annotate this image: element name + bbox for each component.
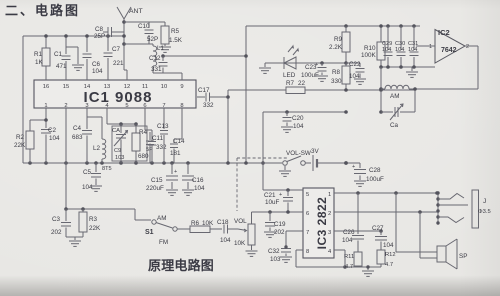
svg-text:SP: SP [459,253,467,260]
op-amp IC2 7642 [429,28,469,63]
svg-text:104: 104 [220,237,231,244]
wire pin2 drop [65,108,67,163]
capacitor C5 [82,163,112,191]
svg-text:104: 104 [383,242,394,249]
resistor R12 [377,250,396,268]
svg-text:202: 202 [51,229,62,236]
wire S1 feed [64,163,151,220]
capacitor C28 [344,161,384,183]
svg-text:C15: C15 [151,177,163,184]
svg-text:15: 15 [63,84,69,90]
svg-text:2.2K: 2.2K [329,44,343,51]
wire left rail [22,36,24,163]
svg-text:L2: L2 [93,145,101,152]
svg-text:4.7: 4.7 [345,264,353,270]
capacitor C23 [301,62,327,79]
svg-text:221: 221 [113,60,124,67]
svg-text:16: 16 [43,84,49,90]
svg-text:5: 5 [125,103,128,109]
wire top bus [23,35,124,37]
wire main rail VCC [23,161,282,165]
ground [354,181,366,186]
wire speaker left drop [396,193,437,252]
capacitor C20 [283,112,305,130]
capacitor C8 [94,26,124,40]
svg-text:原理电路图: 原理电路图 [148,258,214,273]
svg-text:R3: R3 [89,216,98,223]
svg-text:R12: R12 [385,252,396,258]
switch VOL-SW [283,150,311,165]
svg-text:R10: R10 [364,45,376,52]
svg-text:683: 683 [72,134,83,141]
svg-text:104: 104 [194,185,205,192]
capacitor C30 [395,26,406,67]
ground [281,127,293,132]
IC3 U3 2822 [303,188,334,258]
svg-text:7: 7 [306,230,309,236]
resistor R4 [132,124,149,163]
svg-text:C13: C13 [157,123,169,130]
antenna ANT [117,7,143,36]
resistor R9 [329,26,350,63]
svg-text:C7: C7 [112,46,121,53]
svg-text:2: 2 [466,44,469,50]
svg-text:11: 11 [142,84,148,90]
wire output ground bus [296,265,381,269]
capacitor C4 [72,108,92,163]
wire antenna stem [122,20,126,70]
svg-text:C12: C12 [149,55,161,62]
wire C10 branch [124,21,165,23]
dashed gang link [237,158,288,211]
ground [259,63,271,73]
battery BT 3V [305,148,346,171]
resistor R11 [344,252,362,270]
svg-text:1: 1 [429,44,432,50]
svg-text:+: + [279,192,282,198]
wire AM tank right rail [413,87,417,112]
svg-text:7642: 7642 [441,47,457,54]
speaker SP [437,239,467,269]
svg-text:10: 10 [161,84,167,90]
IC1 U1 9088 [34,80,196,109]
svg-text:8: 8 [306,249,309,255]
wire C20 row [263,110,348,114]
svg-text:ANT: ANT [129,8,143,15]
svg-text:C27: C27 [372,225,384,232]
capacitor C3 [51,209,71,237]
ground [279,166,291,176]
wire C12 feed [161,54,246,58]
svg-text:14: 14 [84,84,91,90]
svg-text:104: 104 [382,47,391,53]
svg-text:J: J [483,198,486,205]
svg-text:332: 332 [203,102,214,109]
ground [354,79,366,84]
svg-text:471: 471 [56,63,67,70]
resistor R8 [331,63,350,90]
ground [246,251,258,256]
svg-text:C18: C18 [217,219,229,226]
capacitor C12 [149,55,168,73]
resistor R5 [161,22,183,46]
capacitor C16 [182,163,205,192]
svg-text:Ca: Ca [390,122,399,129]
svg-text:104: 104 [49,135,60,142]
svg-text:+: + [352,164,355,170]
svg-text:181: 181 [170,150,181,157]
resistor R3 [79,209,101,237]
wire pin7 [286,230,303,232]
LED D1 [283,46,299,79]
wire pin2 row [334,210,437,214]
svg-text:R7: R7 [286,80,295,87]
capacitor C15 [146,163,178,192]
ground [159,47,171,52]
ground [66,237,83,246]
svg-text:CA: CA [112,128,120,134]
capacitor C18 [217,219,238,244]
wire mid rail [244,26,248,163]
svg-text:1K: 1K [35,59,44,66]
switch S1 [145,215,177,246]
svg-text:680: 680 [138,153,149,160]
svg-text:AM: AM [390,93,399,100]
wire pin6 row [252,210,304,214]
svg-text:220uF: 220uF [146,185,164,192]
svg-text:100K: 100K [361,52,377,59]
svg-text:VOL: VOL [234,218,247,225]
svg-text:R1: R1 [34,51,43,58]
svg-text:12: 12 [124,84,130,90]
oscillator box [112,126,147,161]
capacitor C7 [104,34,125,80]
svg-text:C14: C14 [173,138,185,145]
svg-text:C16: C16 [192,177,204,184]
capacitor C19 [265,212,286,236]
svg-text:C8: C8 [95,26,104,33]
svg-text:9: 9 [180,84,183,90]
wire pin3 row [334,229,383,233]
wire to pin12 [124,70,127,80]
capacitor C13 [157,108,169,163]
capacitor C1 [54,34,71,80]
potentiometer VOL 10K [234,212,255,250]
capacitor C14 [170,108,185,163]
svg-text:R9: R9 [334,36,343,43]
wire speaker right drop [420,212,437,258]
svg-text:R5: R5 [171,28,180,35]
svg-text:R2: R2 [16,134,25,141]
svg-text:C11: C11 [152,135,164,142]
svg-text:L1: L1 [157,45,165,52]
wire pin8 drop [296,250,303,267]
svg-text:3: 3 [328,230,331,236]
svg-text:S1: S1 [145,229,154,236]
svg-text:2: 2 [328,211,331,217]
svg-text:8T5: 8T5 [102,166,112,172]
svg-text:C26: C26 [343,229,355,236]
svg-text:二、电路图: 二、电路图 [5,3,80,18]
svg-text:1: 1 [328,192,331,198]
svg-text:10K: 10K [202,220,214,227]
capacitor C21 [264,190,293,212]
svg-text:3V: 3V [311,148,320,155]
capacitor C11 [145,108,167,163]
svg-text:22K: 22K [89,225,101,232]
variable capacitor Ca [381,104,415,129]
svg-text:IC1 9088: IC1 9088 [84,89,153,106]
svg-text:R8: R8 [332,69,341,76]
svg-text:FM: FM [159,239,168,246]
wire right drop rail [226,90,230,163]
wire AGC row [228,88,415,92]
svg-text:104: 104 [395,47,404,53]
wire pin1 row [334,191,439,195]
ground [166,190,178,195]
svg-text:C1: C1 [54,51,63,58]
capacitor C10 [138,22,158,44]
wire LED row [265,61,348,65]
ground [362,265,374,276]
capacitor 5P [146,132,154,163]
svg-text:25P: 25P [94,33,105,40]
svg-text:1.5K: 1.5K [169,37,183,44]
svg-text:C4: C4 [73,125,82,132]
ground [90,186,102,191]
svg-text:C21: C21 [264,192,276,199]
inductor AM L3 [381,85,415,100]
capacitor C31 [408,26,419,67]
svg-text:AM: AM [157,215,166,222]
svg-text:C19: C19 [274,221,286,228]
svg-text:13: 13 [104,84,110,90]
resistor R6 [177,220,222,233]
svg-text:4.7: 4.7 [385,262,393,268]
wire IC2 output loop [415,46,478,89]
capacitor C22 [346,61,365,80]
svg-text:103: 103 [270,256,281,263]
svg-text:22: 22 [298,80,306,87]
svg-text:C28: C28 [369,167,381,174]
ground [264,232,276,237]
svg-text:R6: R6 [191,220,200,227]
resistor R7 [286,80,306,94]
svg-text:10uF: 10uF [265,199,280,206]
resistor R1 [34,34,50,80]
svg-text:Φ3.5: Φ3.5 [478,209,491,215]
wire pin4 row [107,108,138,126]
ground [66,47,84,70]
svg-text:5: 5 [306,192,309,198]
resistor R2 [14,118,48,163]
wire pin4 drop [334,250,345,267]
capacitor C17 [197,87,228,109]
svg-text:C10: C10 [138,23,150,30]
ground [406,67,418,77]
wire L1 top [124,43,153,45]
wire caps bottom bus [379,65,435,69]
svg-text:104: 104 [408,47,417,53]
wire pin5 input [263,188,303,192]
resistor R10 [361,24,385,67]
capacitor C26 [342,193,364,252]
svg-text:22K: 22K [14,142,26,149]
capacitor C6 [83,34,104,80]
wire IC2 input [416,45,435,47]
svg-text:LED: LED [283,72,296,79]
svg-text:332: 332 [156,144,167,151]
svg-text:C9: C9 [114,148,121,154]
svg-text:+: + [174,169,177,175]
svg-text:R11: R11 [344,254,354,260]
svg-text:103: 103 [115,155,124,161]
capacitor C27 [372,225,394,250]
svg-text:104: 104 [82,184,93,191]
svg-text:104: 104 [342,237,353,244]
wire AM tank left rail [379,67,383,114]
svg-text:104: 104 [92,68,103,75]
jack J 3.5mm [436,190,490,228]
svg-text:6: 6 [306,211,309,217]
ground [280,257,292,262]
ground [182,190,194,195]
svg-text:C17: C17 [198,87,210,94]
svg-text:C32: C32 [268,248,280,255]
wire volume feed rail [261,112,265,190]
inductor L1 [153,44,165,73]
inductor L2 [87,117,106,163]
wire top-right bus [246,24,420,28]
svg-text:100uF: 100uF [366,176,384,183]
capacitor C2 [41,108,60,163]
svg-text:VOL-SW: VOL-SW [286,150,311,157]
ground [316,76,328,81]
svg-text:52P: 52P [147,36,158,43]
svg-text:C22: C22 [349,61,361,68]
svg-text:IC2: IC2 [438,28,450,37]
svg-text:C3: C3 [52,216,61,223]
variable capacitor Ca2 [112,124,128,163]
svg-text:IC3 2822: IC3 2822 [315,197,329,250]
svg-text:C20: C20 [292,115,304,122]
svg-text:C2: C2 [48,127,57,134]
svg-text:330: 330 [331,78,342,85]
svg-text:10K: 10K [234,240,246,247]
svg-text:+: + [315,62,318,68]
wire to pin9 [153,73,182,80]
svg-text:331: 331 [151,66,162,73]
capacitor C29 [382,26,393,67]
svg-text:C6: C6 [92,61,101,68]
svg-text:104: 104 [293,123,304,130]
svg-text:C5: C5 [83,169,92,176]
capacitor C32 [268,231,291,263]
